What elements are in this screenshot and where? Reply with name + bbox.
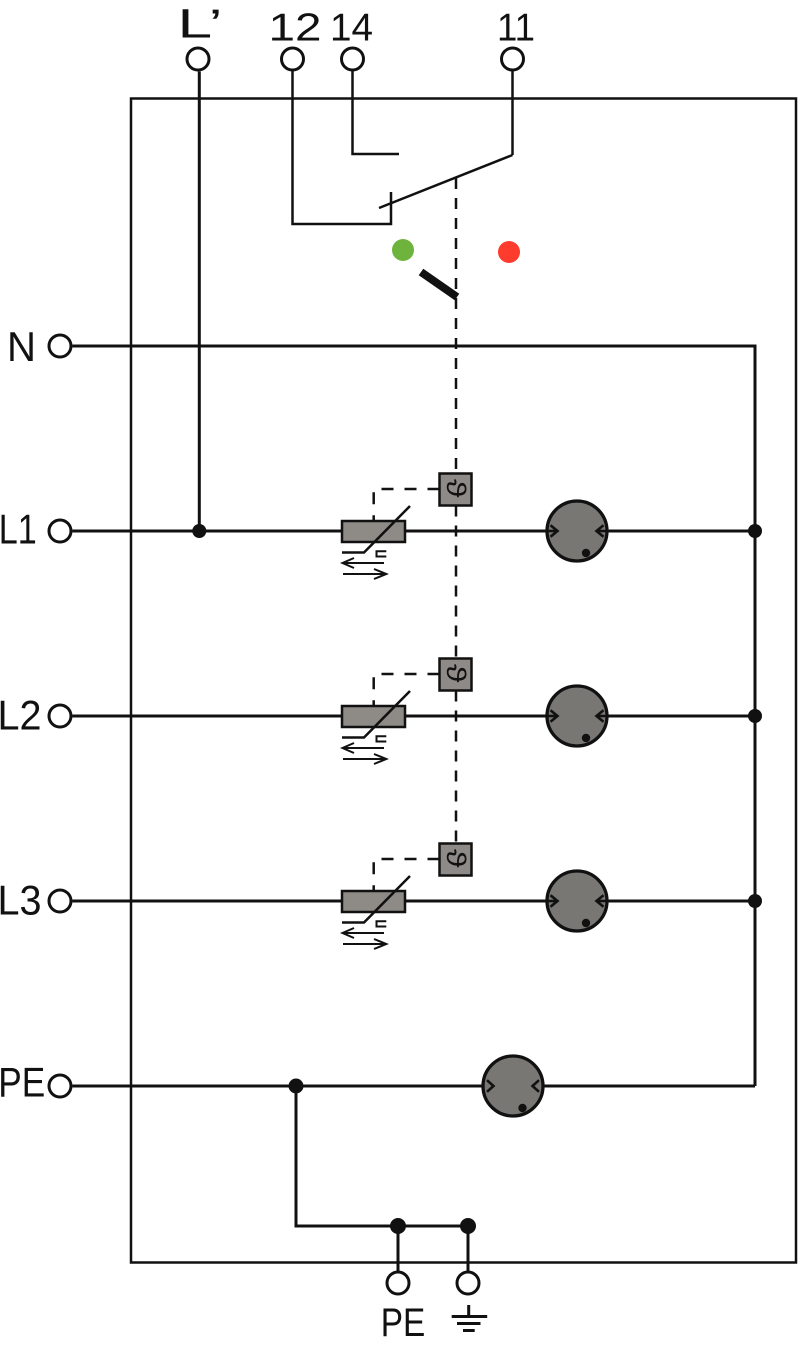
spark gap F3: [547, 871, 608, 931]
wire L1: [73, 530, 756, 533]
wire to earth terminal: [467, 1226, 470, 1272]
svg-text:N: N: [7, 323, 36, 370]
svg-text:ϑ: ϑ: [441, 664, 470, 683]
wire 12 to fixed contact: [293, 71, 392, 225]
junction L2/N-bus: [748, 709, 762, 723]
changeover switch arm: [379, 155, 513, 208]
junction L3/N-bus: [748, 894, 762, 908]
green status LED: [392, 239, 414, 261]
thermal disconnect actuator (thick stroke): [421, 272, 457, 297]
thermal disconnect θ1: [440, 474, 472, 506]
terminal 11: [502, 48, 524, 70]
wire PE: [73, 1085, 756, 1088]
wire L' down to L1: [198, 72, 201, 532]
varistor MOV2: [342, 691, 410, 742]
junction earth bar right: [460, 1218, 476, 1234]
svg-text:L2: L2: [0, 692, 42, 739]
junction PE drop: [289, 1079, 304, 1094]
surge arrows MOV1: [343, 558, 387, 579]
spark gap F1: [547, 501, 608, 561]
terminal L1: [49, 520, 71, 542]
svg-text:L1: L1: [0, 506, 37, 553]
terminal L': [187, 48, 209, 70]
wire 11 common: [511, 71, 514, 156]
terminal L2: [49, 705, 71, 727]
svg-text:PE: PE: [381, 1301, 426, 1345]
bottom terminal earth: [457, 1272, 479, 1294]
thermal disconnect θ2: [440, 659, 472, 691]
bottom terminal PE: [387, 1272, 409, 1294]
surge arrows MOV2: [343, 743, 387, 764]
wire to PE bottom terminal: [397, 1226, 400, 1272]
wire L3: [73, 900, 756, 903]
terminal 12: [282, 48, 304, 70]
varistor MOV1: [342, 506, 410, 557]
svg-text:PE: PE: [0, 1059, 45, 1106]
dashed mechanical linkage (middle): [455, 506, 458, 659]
svg-text:11: 11: [497, 7, 535, 50]
junction earth bar left: [390, 1218, 406, 1234]
dashed link varistor L2 to thermal disconnect: [374, 674, 440, 706]
earth ground symbol: [452, 1305, 488, 1331]
wire 14 to open contact: [353, 71, 400, 155]
wire L2: [73, 715, 756, 718]
surge arrows MOV3: [343, 928, 387, 949]
red status LED: [498, 241, 520, 263]
svg-text:L3: L3: [0, 877, 42, 924]
dashed link varistor L1 to thermal disconnect: [374, 489, 440, 521]
spark gap F4 (PE): [483, 1056, 543, 1116]
svg-text:L’: L’: [178, 1, 223, 47]
dashed mechanical linkage (lower): [455, 691, 458, 844]
dashed mechanical linkage (upper): [455, 178, 458, 474]
junction L'/L1: [192, 524, 206, 538]
svg-text:ϑ: ϑ: [441, 479, 470, 498]
svg-text:ϑ: ϑ: [441, 849, 470, 868]
terminal L3: [49, 890, 71, 912]
spark gap F2: [547, 686, 608, 746]
terminal 14: [342, 48, 364, 70]
wire PE drop to earth bar: [296, 1086, 468, 1226]
enclosure outline (device boundary): [131, 99, 796, 1263]
varistor MOV3: [342, 876, 410, 927]
svg-text:14: 14: [330, 7, 373, 50]
wire N: [73, 346, 756, 1086]
terminal N: [49, 335, 71, 357]
terminal PE: [49, 1075, 71, 1097]
thermal disconnect θ3: [440, 844, 472, 876]
junction L1/N-bus: [748, 524, 762, 538]
dashed link varistor L3 to thermal disconnect: [374, 859, 440, 891]
svg-text:12: 12: [269, 7, 322, 50]
